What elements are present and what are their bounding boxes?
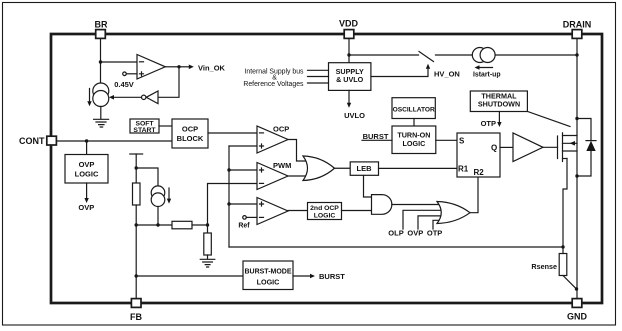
wire divider row — [136, 224, 172, 226]
resistor Rfb2 — [172, 221, 192, 229]
block TURN-ON LOGIC — [392, 126, 436, 154]
node GND junction — [575, 287, 578, 290]
wire Istart-up to drain line — [495, 54, 577, 56]
wire Rfb3 to ground — [207, 255, 209, 259]
svg-text:R2: R2 — [474, 168, 485, 177]
wire junction to current source I2 — [136, 168, 158, 186]
wire OCP BLOCK to OCP comparator — [208, 132, 257, 134]
svg-text:LOGIC: LOGIC — [314, 212, 336, 219]
node diode bottom — [575, 174, 578, 177]
wire FB line — [135, 225, 137, 298]
diode D1 body — [577, 119, 596, 177]
supply rail for FB divider — [130, 154, 143, 183]
current source I2 (FB) — [151, 186, 171, 207]
or-gate OR1 — [303, 156, 335, 181]
node sense OCP2 — [227, 202, 230, 205]
svg-text:& UVLO: & UVLO — [336, 75, 364, 84]
svg-text:DRAIN: DRAIN — [563, 20, 592, 30]
node BR junction — [99, 60, 102, 63]
wire current sense horizontal from Rsense — [229, 246, 563, 248]
and-gate AND1 — [372, 195, 392, 215]
svg-text:R1: R1 — [458, 165, 469, 174]
wire sense to OCP plus input — [229, 145, 257, 147]
wire SOFT START to OCP BLOCK — [159, 125, 172, 127]
signal Vin_OK — [179, 64, 226, 73]
wire CONT to OCP BLOCK — [56, 140, 172, 142]
svg-text:GND: GND — [567, 312, 588, 322]
wire switch to Istart-up source — [436, 54, 473, 56]
wire OR2 to latch R2 — [470, 177, 478, 213]
svg-text:SHUTDOWN: SHUTDOWN — [478, 100, 520, 109]
op-amp U1 brownout comparator — [137, 55, 165, 80]
block LEB — [350, 162, 378, 175]
svg-text:OCP: OCP — [273, 125, 289, 134]
svg-text:BURST: BURST — [319, 272, 345, 281]
block OVP LOGIC — [65, 155, 108, 184]
wire comparator output — [165, 66, 179, 68]
wire Rfb2 to PWM tap — [192, 224, 208, 226]
ground GND1 — [94, 107, 109, 128]
wire tap to BURST-MODE LOGIC — [136, 275, 243, 277]
node VDD junction — [347, 53, 350, 56]
pin BR — [95, 20, 108, 39]
wire inverter to current source I1 — [109, 95, 142, 100]
wire 2nd OCP comparator to 2nd OCP LOGIC — [288, 210, 308, 212]
signal UVLO output — [344, 90, 365, 120]
node row I2 — [156, 223, 159, 226]
wire LEB to latch R1 — [379, 167, 458, 169]
svg-text:BR: BR — [95, 20, 108, 30]
svg-text:UVLO: UVLO — [344, 111, 365, 120]
wire current sense vertical — [228, 146, 230, 247]
svg-text:2nd OCP: 2nd OCP — [310, 205, 339, 212]
signal BURST output — [293, 272, 345, 281]
wire Vin_OK junction to inverter input — [158, 67, 179, 98]
wire VDD down to SUPPLY block — [348, 39, 350, 63]
svg-text:Ref: Ref — [238, 223, 250, 230]
node Vin_OK junction — [177, 65, 180, 68]
svg-text:S: S — [459, 137, 465, 146]
wire AND1 to OR2 — [392, 204, 444, 206]
wire OSCILLATOR to TURN-ON LOGIC — [413, 119, 415, 127]
svg-text:OTP: OTP — [481, 119, 496, 128]
current source I1 (BR) — [87, 83, 109, 107]
svg-text:PWM: PWM — [273, 161, 291, 170]
wire resistor Rfb1 to row — [135, 205, 137, 225]
svg-text:Vin_OK: Vin_OK — [198, 64, 226, 73]
wire tap to resistor Rfb3 — [207, 225, 209, 233]
wire PWM output to OR1 — [288, 175, 308, 177]
node drain diode top — [575, 117, 578, 120]
resistor Rfb1 — [133, 183, 141, 205]
current source Istart-up — [472, 48, 500, 79]
wire OCP output to OR1 — [288, 140, 308, 162]
wire sense to 2nd OCP plus input — [229, 203, 257, 205]
pin VDD — [339, 19, 359, 39]
node drain Istart-up — [575, 53, 578, 56]
wire 2nd OCP LOGIC to AND1 — [342, 210, 372, 212]
svg-text:BURST: BURST — [363, 132, 389, 141]
pin GND — [567, 299, 588, 322]
svg-text:HV_ON: HV_ON — [434, 70, 460, 79]
svg-text:Q: Q — [491, 144, 497, 153]
wire I2 to divider row — [157, 207, 159, 226]
wire LEB to AND1 — [364, 176, 374, 198]
svg-text:OVP: OVP — [79, 160, 95, 169]
pin DRAIN — [563, 20, 592, 39]
svg-text:Reference Voltages: Reference Voltages — [243, 81, 304, 88]
wire sense to PWM plus input — [229, 169, 257, 171]
svg-text:0.45V: 0.45V — [114, 80, 134, 89]
block SOFT START — [130, 119, 159, 134]
svg-text:FB: FB — [130, 312, 142, 322]
block BURST-MODE LOGIC — [243, 261, 293, 290]
pin CONT — [19, 136, 56, 146]
wire TURN-ON LOGIC to latch S — [436, 139, 457, 141]
wire Rsense to GND junction — [563, 276, 577, 290]
svg-text:BURST-MODE: BURST-MODE — [244, 269, 291, 276]
node PWM tap — [206, 223, 209, 226]
wire source path — [563, 159, 567, 248]
wire BR junction to comparator minus input — [101, 61, 138, 63]
svg-text:OVP: OVP — [78, 203, 94, 212]
inverter U2 — [142, 91, 159, 104]
svg-text:CONT: CONT — [19, 136, 45, 146]
wire thermal sense diagonal — [527, 111, 570, 126]
svg-text:OTP: OTP — [427, 229, 442, 238]
wire latch Q to buffer — [500, 146, 513, 148]
svg-text:LOGIC: LOGIC — [403, 139, 426, 148]
signal BURST input — [362, 132, 392, 141]
svg-text:OVP: OVP — [407, 229, 423, 238]
reference 0.45V — [114, 72, 137, 89]
wire BR down to current source — [100, 39, 102, 84]
svg-text:OSCILLATOR: OSCILLATOR — [393, 106, 435, 113]
resistor Rsense — [531, 247, 566, 276]
svg-text:OLP: OLP — [388, 229, 403, 238]
net Internal Supply bus and Reference Voltages — [243, 68, 328, 88]
signal OLP input — [388, 210, 444, 237]
latch U3 SR — [457, 133, 500, 177]
comparator 2nd OCP — [257, 198, 288, 225]
node divider top junction — [135, 166, 138, 169]
block THERMAL SHUTDOWN — [470, 91, 527, 112]
ground GND2 — [200, 259, 215, 267]
resistor Rfb3 — [204, 233, 212, 255]
svg-text:BLOCK: BLOCK — [177, 134, 204, 143]
wire OR1 to LEB — [335, 167, 351, 169]
svg-text:VDD: VDD — [339, 19, 359, 29]
wire DRAIN line — [576, 39, 578, 299]
svg-text:Rsense: Rsense — [531, 262, 557, 271]
wire buffer to gate — [543, 146, 558, 148]
signal OTP input — [427, 220, 443, 237]
node row left — [135, 223, 138, 226]
node CONT junction — [85, 139, 88, 142]
buffer U4 gate driver — [513, 133, 543, 162]
wire VDD junction to switch — [349, 54, 419, 56]
svg-text:OCP: OCP — [182, 125, 198, 134]
wire tap to PWM minus input — [208, 184, 258, 226]
svg-text:LEB: LEB — [357, 164, 373, 173]
block OCP BLOCK — [172, 119, 208, 148]
switch S1 — [419, 52, 434, 62]
block OSCILLATOR — [392, 98, 435, 119]
comparator PWM — [257, 161, 291, 190]
IC boundary — [51, 34, 602, 303]
pin FB — [130, 299, 142, 322]
block 2nd OCP LOGIC — [308, 203, 342, 220]
comparator OCP — [257, 125, 289, 154]
reference Ref — [238, 216, 257, 230]
signal OVP output — [78, 183, 94, 212]
or-gate OR2 — [437, 202, 470, 224]
svg-text:Istart-up: Istart-up — [473, 72, 501, 79]
node sense tap — [561, 245, 564, 248]
svg-text:LOGIC: LOGIC — [75, 170, 99, 179]
node burst tap — [135, 274, 138, 277]
block SUPPLY & UVLO — [329, 63, 371, 91]
wire junction to OVP LOGIC — [86, 141, 88, 155]
transistor Q1 SenseFET — [558, 133, 578, 162]
signal OTP output — [481, 112, 502, 129]
svg-text:START: START — [133, 127, 156, 134]
wire HV_ON control — [371, 64, 430, 77]
node sense PWM — [227, 168, 230, 171]
signal OVP input — [407, 216, 443, 238]
svg-text:LOGIC: LOGIC — [257, 278, 280, 287]
